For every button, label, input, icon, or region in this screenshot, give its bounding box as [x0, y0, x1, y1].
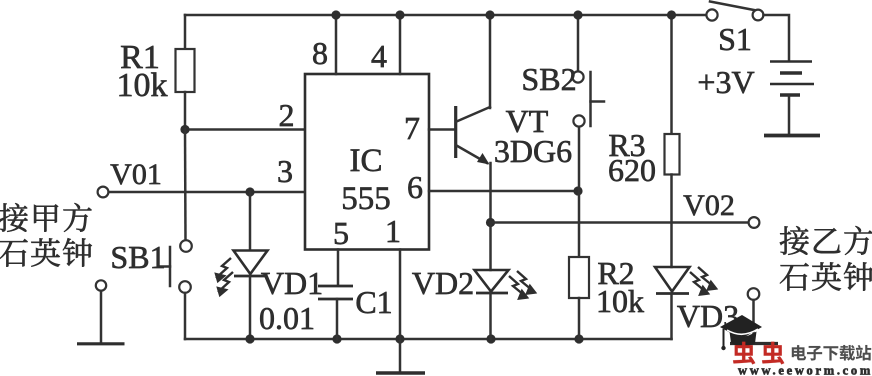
svg-text:SB2: SB2 [521, 61, 576, 97]
wire R3 from rail [670, 15, 673, 134]
resistor R3 [665, 134, 680, 175]
battery plate short 1 [780, 71, 802, 75]
wire S1 to battery [764, 15, 790, 61]
battery plate long 2 [770, 83, 814, 86]
wire V02 line [491, 221, 749, 224]
op-amp/timer IC U1 555 box [305, 74, 429, 250]
wire SB2 lower contact to pin6 node, continues to R2 [578, 127, 581, 257]
node pin4 on rail [395, 10, 404, 19]
LED VD3 triangle [655, 267, 690, 292]
wire R1 bottom to pin2 node [184, 92, 187, 130]
node VD2 on bottom rail [486, 334, 495, 343]
terminal V01 open circle [98, 187, 109, 198]
transistor Q1 VT base bar [454, 106, 457, 158]
switch SB2 actuator tick [591, 100, 605, 103]
node SB2 on rail [573, 10, 582, 19]
wire VD1 cathode to bottom rail [249, 276, 252, 339]
switch SB1 actuator bar [169, 247, 172, 286]
wire R3 bottom through V02 line to VD3 [670, 175, 673, 268]
svg-text:3: 3 [277, 153, 293, 189]
LED VD2 cathode bar [476, 292, 508, 295]
ground left bar [77, 342, 125, 345]
node SB2/R2 tap on pin6 line [573, 186, 582, 195]
node VD1 tap on pin3 line [245, 187, 254, 196]
node pin2/R1 junction [180, 125, 189, 134]
node R2 on bottom rail [574, 334, 583, 343]
node VD1 on bottom rail [245, 334, 254, 343]
LED VD3 cathode bar [656, 292, 689, 295]
switch SB1 actuator tick [159, 265, 171, 268]
LED VD2 triangle [475, 270, 509, 292]
wire SB2 from rail [577, 15, 580, 71]
wire bottom rail [185, 338, 672, 341]
watermark red 虫虫 [733, 342, 784, 365]
wire pin 5 to C1 [337, 250, 340, 286]
switch S1 left contact [706, 9, 717, 20]
LED VD1 triangle [234, 251, 268, 275]
LED VD3 emission arrows [690, 267, 716, 295]
svg-text:10k: 10k [117, 67, 168, 104]
wire C1 to bottom rail [336, 299, 339, 339]
wire VD1 anode drop [249, 192, 252, 250]
wire terminal to right ground [752, 300, 755, 343]
switch S1 blade [710, 2, 754, 11]
wire VD2 cathode to bottom rail [489, 293, 492, 339]
node label left line1 接甲方 [0, 203, 92, 232]
node C1 on bottom rail [332, 334, 341, 343]
wire pin 6 line [429, 190, 578, 193]
svg-text:V02: V02 [683, 189, 735, 222]
ground left stem [100, 291, 103, 343]
wire from pin2 node down to SB1 (crosses V01 line) [184, 130, 187, 241]
battery BT1 plate long 1 [770, 60, 812, 63]
svg-text:6: 6 [407, 169, 423, 205]
svg-text:IC: IC [350, 143, 383, 179]
switch SB2 upper contact [572, 71, 583, 82]
svg-text:1: 1 [385, 213, 401, 249]
svg-text:+3V: +3V [697, 64, 754, 100]
LED VD1 emission arrows [216, 258, 233, 295]
wire SB1 lower contact to bottom rail [184, 293, 187, 339]
battery plate short 2 [780, 93, 800, 97]
wire V01 / pin 3 line [109, 191, 306, 194]
svg-text:555: 555 [341, 181, 391, 217]
watermark graduation cap [720, 315, 762, 350]
terminal left ground open circle [96, 280, 106, 290]
svg-text:4: 4 [371, 38, 387, 74]
node pin1/ground on bottom rail [395, 334, 404, 343]
switch SB2 actuator bar [589, 72, 592, 126]
resistor R2 [569, 257, 589, 298]
svg-text:www.eeworm.com: www.eeworm.com [738, 364, 872, 376]
svg-text:2: 2 [279, 97, 295, 133]
wire pin 2 [185, 128, 305, 131]
svg-text:VD1: VD1 [261, 265, 323, 301]
capacitor C1 bottom plate [318, 298, 353, 301]
svg-text:5: 5 [333, 215, 349, 251]
svg-text:SB1: SB1 [110, 239, 165, 275]
ground right bar [730, 342, 778, 345]
wire pin 1 to ground [399, 250, 402, 373]
svg-text:S1: S1 [718, 21, 752, 57]
wire R2 to bottom rail [578, 298, 581, 339]
ground center bar [376, 371, 425, 375]
svg-text:10k: 10k [596, 283, 644, 319]
wire VT emitter down to V02 node (crosses pin6 line) [489, 163, 492, 223]
node pin8 on rail [331, 10, 340, 19]
terminal V02 open circle [749, 217, 760, 228]
svg-text:8: 8 [312, 35, 328, 71]
wire VD3 cathode to bottom rail corner [670, 294, 673, 340]
node R3 on rail [667, 10, 676, 19]
watermark 电子下载站 [792, 345, 871, 361]
transistor VT emitter diagonal with arrow [457, 146, 488, 164]
svg-text:7: 7 [404, 110, 420, 146]
switch S1 right contact [753, 10, 764, 21]
svg-text:C1: C1 [355, 284, 392, 320]
svg-text:620: 620 [608, 152, 656, 188]
wire pin 8 [335, 15, 338, 74]
wire battery to ground [788, 96, 791, 133]
node label left line2 石英钟 [0, 238, 92, 267]
node label right line1 接乙方 [780, 226, 872, 255]
wire VT collector to rail [489, 15, 492, 108]
node V02 line start at emitter leg [486, 218, 495, 227]
terminal lower-right open circle [748, 288, 760, 300]
switch SB2 lower contact [573, 115, 584, 126]
wire VD2 anode drop [489, 223, 492, 271]
capacitor C1 top plate [318, 285, 353, 288]
switch SB1 upper contact [180, 240, 192, 252]
node label right line2 石英钟 [780, 262, 872, 291]
wire pin 7 to VT base [429, 128, 455, 131]
ground battery bar [764, 134, 820, 138]
svg-text:VD2: VD2 [412, 265, 474, 301]
svg-text:3DG6: 3DG6 [494, 133, 572, 169]
switch SB1 lower contact [179, 281, 191, 293]
transistor VT collector diagonal [457, 107, 491, 122]
LED VD2 emission arrows [509, 271, 535, 299]
wire top supply rail [185, 14, 707, 17]
node VT collector on rail [485, 10, 494, 19]
LED VD1 cathode bar [234, 275, 266, 278]
wire pin 4 [399, 15, 402, 74]
resistor R1 [176, 49, 195, 92]
wire R1 top from rail [184, 15, 187, 49]
svg-text:V01: V01 [110, 158, 162, 191]
svg-text:0.01: 0.01 [259, 300, 315, 336]
